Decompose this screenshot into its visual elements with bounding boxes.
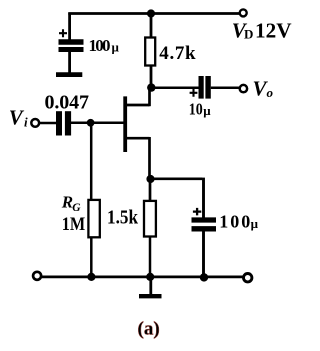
svg-text:μ: μ: [112, 40, 120, 55]
svg-text:D: D: [244, 27, 253, 42]
svg-text:μ: μ: [203, 103, 211, 118]
svg-text:G: G: [72, 202, 81, 214]
svg-text:o: o: [267, 85, 274, 100]
svg-text:4.7k: 4.7k: [159, 43, 196, 64]
svg-text:12V: 12V: [255, 19, 292, 43]
svg-text:(a): (a): [138, 319, 160, 340]
svg-text:10: 10: [189, 99, 203, 118]
svg-text:0.047: 0.047: [45, 91, 90, 113]
svg-text:R: R: [61, 193, 73, 212]
svg-text:μ: μ: [251, 216, 259, 231]
svg-text:V: V: [9, 106, 25, 130]
svg-text:1.5k: 1.5k: [107, 208, 138, 229]
svg-text:100: 100: [89, 36, 111, 55]
svg-text:100: 100: [219, 211, 250, 231]
svg-text:i: i: [24, 114, 28, 129]
svg-text:1M: 1M: [62, 215, 86, 235]
